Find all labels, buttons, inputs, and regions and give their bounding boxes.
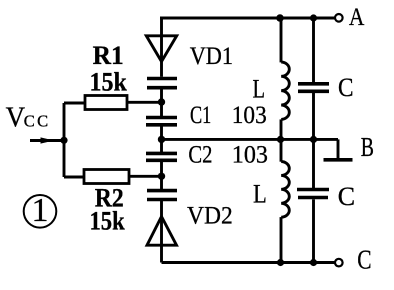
svg-text:R1: R1 bbox=[93, 41, 124, 70]
svg-text:VD2: VD2 bbox=[187, 202, 233, 229]
svg-text:15k: 15k bbox=[90, 207, 126, 236]
svg-text:103: 103 bbox=[232, 142, 268, 169]
svg-text:C1: C1 bbox=[190, 102, 211, 129]
svg-text:1: 1 bbox=[32, 192, 49, 229]
svg-text:V: V bbox=[6, 101, 26, 133]
svg-text:VD1: VD1 bbox=[190, 43, 233, 70]
svg-text:L: L bbox=[253, 179, 267, 208]
svg-text:B: B bbox=[361, 132, 374, 162]
svg-text:A: A bbox=[349, 2, 365, 31]
svg-text:C2: C2 bbox=[188, 142, 212, 169]
svg-text:15k: 15k bbox=[90, 68, 128, 97]
svg-text:L: L bbox=[253, 75, 266, 104]
svg-text:103: 103 bbox=[232, 102, 267, 129]
svg-text:C: C bbox=[338, 73, 354, 102]
svg-text:C: C bbox=[338, 182, 355, 211]
svg-text:C: C bbox=[357, 245, 371, 275]
